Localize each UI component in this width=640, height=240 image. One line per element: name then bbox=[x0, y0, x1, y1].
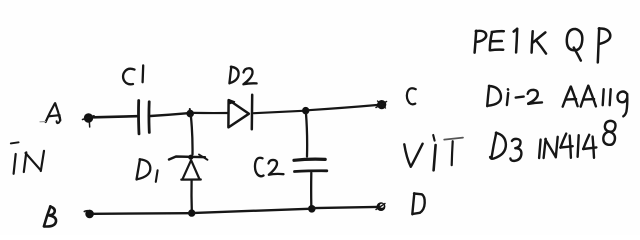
text PE1KQP bbox=[475, 28, 611, 62]
junction node3 (bottom) bbox=[188, 209, 195, 216]
terminal A bbox=[83, 113, 95, 127]
wire node1 down to D1 bbox=[191, 115, 193, 155]
label IN bbox=[11, 142, 44, 174]
label C2 bbox=[255, 158, 284, 177]
wire C2 to bottom bbox=[310, 173, 312, 206]
label UIT bbox=[404, 135, 463, 170]
wire D2 to node2 bbox=[254, 111, 303, 113]
label D bbox=[412, 193, 424, 214]
wire D1 to bottom bbox=[190, 181, 193, 211]
label B bbox=[44, 206, 56, 226]
wire C1 to node1 bbox=[151, 113, 189, 116]
junction node4 (bottom) bbox=[308, 205, 316, 213]
wire node2 down to C2 bbox=[306, 114, 307, 157]
junction node1 bbox=[186, 109, 194, 117]
label C bbox=[407, 88, 416, 104]
text D3 IN4148 bbox=[490, 121, 615, 161]
capacitor C2 bbox=[294, 159, 327, 171]
terminal C bbox=[376, 100, 387, 109]
text D1-2 AA119 bbox=[487, 86, 627, 117]
terminal D bbox=[376, 202, 385, 211]
diode D1 bbox=[169, 155, 208, 180]
label D1 bbox=[137, 159, 158, 182]
diode D2 bbox=[228, 95, 252, 130]
label C1 bbox=[123, 65, 143, 84]
terminal B bbox=[84, 210, 94, 219]
label A bbox=[40, 103, 60, 123]
junction node2 bbox=[302, 107, 309, 114]
label D2 bbox=[229, 67, 256, 85]
wire node2 to terminal C bbox=[309, 105, 378, 110]
capacitor C1 bbox=[139, 101, 150, 134]
wire A to C1 bbox=[94, 116, 138, 117]
wire node1 to D2 bbox=[194, 112, 228, 114]
wire B to D (bottom rail) bbox=[94, 212, 189, 215]
